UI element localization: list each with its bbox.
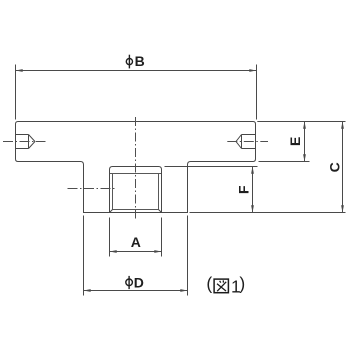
dim phiB extension left [15,65,17,120]
dim A extension left [109,218,111,257]
arrow C top [341,122,344,129]
kanji zu glyph [214,279,228,293]
svg-text:B: B [135,53,145,69]
arrow phiB right [249,69,256,72]
thread run-out chamfer right [159,210,162,213]
dim C line [342,122,344,213]
dim E bottom extension [259,161,310,163]
threaded hole outer profile (thread crest) [110,167,162,213]
right side hole [236,135,256,149]
part outline (T-shaped flange with boss) [16,122,256,213]
arrow phiD right [180,289,187,292]
centerline vertical part axis [135,117,137,219]
svg-text:): ) [239,274,245,294]
svg-text:(: ( [206,274,212,294]
left side hole [16,135,36,149]
thread run-out chamfer left [110,210,113,213]
centerline right hole axis [227,141,268,143]
arrow F bottom [251,205,254,212]
dim F top extension (hole depth line) [165,166,258,168]
dim phiD line [84,290,188,292]
dim A extension right [161,218,163,257]
arrow E top [303,122,306,129]
dim phiB line [16,70,257,72]
svg-text:A: A [131,234,141,250]
arrow phiD left [84,289,91,292]
svg-text:D: D [134,274,144,290]
centerline left hole axis [3,141,46,143]
dim phiD extension right [187,216,189,296]
dim E C top extension [257,121,345,123]
arrow A left [110,250,117,253]
symbol phi of phiD [126,276,133,289]
dim phiB extension right [256,65,258,120]
arrow E bottom [303,154,306,161]
arrow C bottom [341,205,344,212]
arrow phiB left [16,69,23,72]
centerline boss hole horizontal [68,188,115,190]
dim A line [110,251,162,253]
caption (zu 1) [206,274,245,297]
threaded hole inner profile (thread root) [110,174,161,210]
arrow A right [154,250,161,253]
symbol phi of phiB [126,55,132,69]
svg-text:F: F [235,185,251,194]
arrow F top [251,167,254,174]
dim phiD extension left [83,216,85,296]
svg-text:E: E [287,137,303,146]
svg-text:C: C [326,162,342,172]
dim F line [252,167,254,213]
dim E line [304,122,306,162]
boss bottom extension [190,212,346,214]
